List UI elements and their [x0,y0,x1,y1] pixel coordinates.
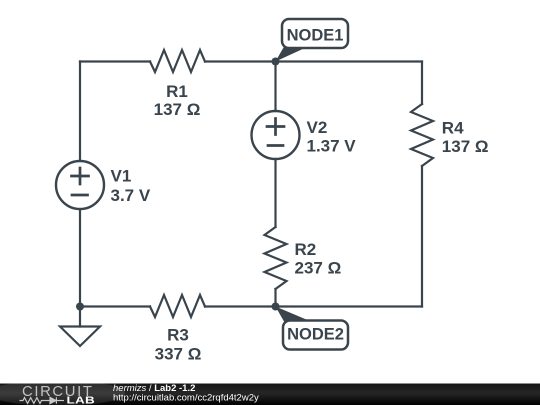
V1 value label [111,167,151,206]
resistor R3 [150,295,205,317]
V2 value label [307,118,357,155]
svg-text:R2: R2 [295,240,317,259]
svg-text:http://circuitlab.com/cc2rqfd4: http://circuitlab.com/cc2rqfd4t2w2y [113,392,259,403]
wire bottom-left horizontal [80,305,150,307]
resistor R2 [265,227,287,289]
wire R2 to node2 [274,289,276,307]
ground [60,327,100,347]
wire R1 to node1 [205,60,276,62]
voltage source V1 [56,161,104,209]
wire left vertical upper [79,62,81,161]
svg-text:R4: R4 [442,119,464,138]
node NODE2 dot [272,303,280,311]
svg-text:R3: R3 [167,326,189,345]
resistor R1 [150,50,205,72]
svg-text:R1: R1 [166,82,188,101]
wire V2 to R2 [274,159,276,227]
svg-text:137 Ω: 137 Ω [154,100,201,119]
svg-text:LAB: LAB [67,394,96,405]
R1 value label [154,82,201,119]
footer credit text [113,383,259,404]
wire R3 to node2 [205,305,276,307]
wire ground lead [79,307,81,327]
svg-text:1.37 V: 1.37 V [307,136,357,155]
wire left vertical lower [79,210,81,307]
svg-text:137 Ω: 137 Ω [442,137,489,156]
wire right vertical lower [421,166,423,307]
svg-text:V2: V2 [307,118,328,137]
junction dot ground [76,303,84,311]
wire node2 to bottom-right corner [276,305,423,307]
resistor R4 [411,104,433,166]
R4 value label [442,119,489,156]
footer logo glow [0,380,125,405]
wire top-left horizontal [80,60,150,62]
R2 value label [295,240,342,278]
voltage source V2 [252,111,300,159]
svg-text:NODE1: NODE1 [287,27,344,45]
NODE2 label [276,307,349,350]
svg-text:V1: V1 [111,167,132,186]
svg-text:3.7 V: 3.7 V [111,186,151,205]
NODE1 label [276,19,349,62]
footer bar [0,384,540,405]
CircuitLab logo resistor-diode glyph [20,397,65,403]
node NODE1 dot [272,58,280,66]
wire node1 to top-right corner [276,60,423,62]
svg-text:NODE2: NODE2 [287,326,344,344]
wire right vertical upper [421,62,423,105]
R3 value label [155,326,202,364]
svg-text:237 Ω: 237 Ω [295,259,342,278]
CircuitLab logo wordmark [22,384,95,405]
svg-text:337 Ω: 337 Ω [155,345,202,364]
wire node1 to V2 [274,62,276,112]
